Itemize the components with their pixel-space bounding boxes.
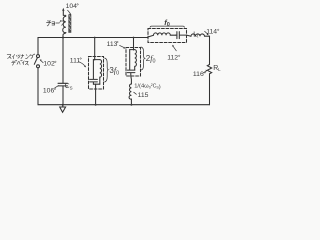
dashed box 111	[89, 57, 104, 90]
brace 3f0	[105, 58, 109, 82]
svg-text:106: 106	[43, 88, 55, 95]
wire right vertical	[209, 36, 211, 64]
capacitor in 111 (left branch)	[90, 60, 98, 85]
inductor in 113 (right branch)	[135, 50, 137, 71]
svg-text:Lt: Lt	[193, 31, 199, 38]
inductor in 112	[154, 33, 176, 35]
node top joint 111	[93, 59, 99, 61]
label chooku (katakana choke)	[47, 20, 64, 26]
svg-text:CS: CS	[65, 83, 73, 90]
wire left vertical (drain to switch)	[37, 38, 39, 55]
supply arrow at 104	[63, 10, 66, 15]
switching device Q 102	[34, 55, 39, 68]
capacitor in 112	[177, 32, 187, 39]
wire bottom rail	[38, 104, 210, 106]
svg-text:116: 116	[193, 71, 204, 78]
label 102 leader	[41, 60, 44, 62]
svg-text:1/(4ω02CS): 1/(4ω02CS)	[134, 83, 161, 90]
resistor RL 116	[207, 65, 211, 74]
svg-text:111: 111	[70, 57, 81, 64]
inductor Lt 114	[187, 35, 192, 36]
wire into 112	[148, 35, 154, 37]
label 112 leader	[173, 47, 176, 51]
node bottom joint 111	[93, 83, 99, 85]
svg-text:104: 104	[66, 3, 78, 10]
label debaisu (katakana device)	[12, 60, 29, 65]
svg-text:115: 115	[138, 92, 149, 99]
svg-text:3f0: 3f0	[109, 66, 119, 76]
wire tank 111 top	[94, 38, 96, 61]
label 104 leader	[68, 10, 71, 13]
svg-text:114: 114	[206, 29, 217, 36]
svg-text:113: 113	[107, 41, 118, 48]
wire 111 to ground rail	[95, 84, 97, 105]
ground	[62, 104, 64, 106]
svg-text:112: 112	[167, 55, 178, 62]
label 116 leader	[203, 71, 206, 73]
brace 2f0	[141, 47, 145, 70]
overbrace f0	[150, 26, 185, 27]
node drain junction dot	[62, 37, 64, 39]
wire tank 113 top	[133, 38, 135, 51]
text labels	[43, 3, 219, 99]
label suicchingu (katakana switching)	[7, 54, 35, 59]
dashed box 112	[148, 29, 187, 43]
label 106 leader	[55, 86, 59, 88]
capacitor Cs 106	[62, 38, 64, 84]
label 115 leader	[134, 92, 137, 94]
label 111 leader	[78, 62, 84, 66]
capacitor in 113 (left branch)	[127, 50, 135, 76]
node top joint 113	[130, 49, 135, 51]
svg-text:RL: RL	[213, 65, 221, 72]
choke inductor 104	[63, 14, 72, 37]
wire switch to bottom rail	[37, 68, 39, 105]
svg-text:f0: f0	[164, 18, 170, 28]
inductor in 111 (right branch)	[100, 60, 102, 85]
svg-text:2f0: 2f0	[146, 54, 156, 64]
svg-text:102: 102	[43, 61, 55, 68]
dashed box 113	[126, 48, 141, 77]
label 113 leader	[120, 45, 124, 47]
inductor 115 residual	[130, 76, 133, 84]
label 114 leader	[205, 31, 208, 34]
wire top rail	[38, 37, 148, 39]
